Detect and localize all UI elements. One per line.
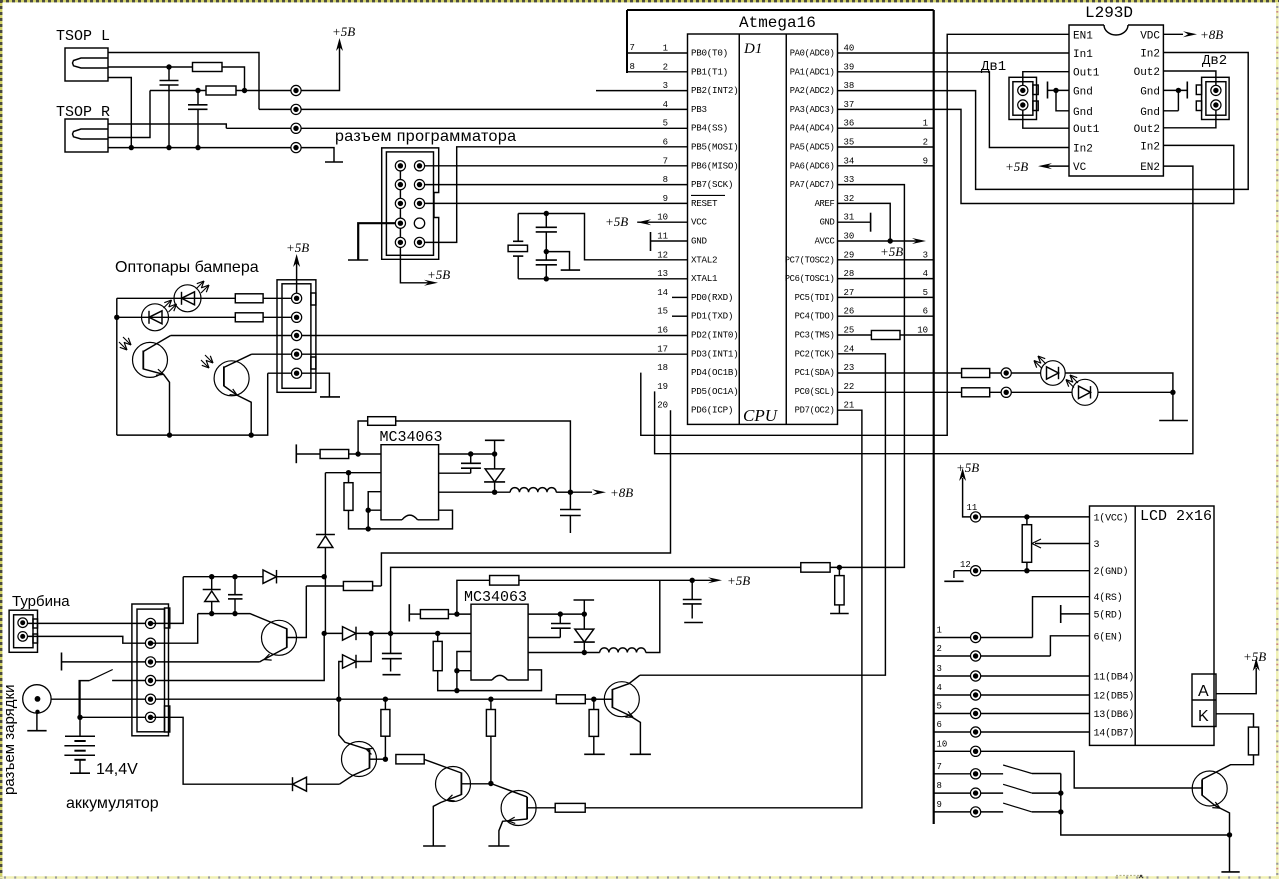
wire battery rail <box>51 698 612 700</box>
capacitor C_xtal1 <box>545 214 547 252</box>
resistor R_ab <box>396 755 424 764</box>
wire pad2 to row613 <box>151 614 198 644</box>
LED VD_opt2 <box>142 304 169 331</box>
resistor R_t1 vertical <box>348 473 350 483</box>
inductor L1 <box>510 488 556 493</box>
wire INT1 row <box>252 353 688 355</box>
capacitor C_t2 <box>559 614 561 637</box>
svg-text:A: A <box>1198 683 1209 700</box>
diode VD_mc2 <box>583 614 585 629</box>
svg-text:PD2(INT0): PD2(INT0) <box>691 330 738 341</box>
junction dots MC34063-2 right <box>558 611 563 616</box>
Atmega16 outer frame <box>627 9 934 11</box>
svg-text:28: 28 <box>844 269 855 279</box>
svg-text:GND: GND <box>691 236 708 247</box>
svg-text:+5В: +5В <box>332 24 355 39</box>
svg-text:4(RS): 4(RS) <box>1094 592 1123 604</box>
turbine tabs <box>33 619 38 628</box>
turbine pad1 <box>18 618 28 628</box>
resistor R_b5v base <box>556 695 585 704</box>
svg-text:+5В: +5В <box>880 244 903 259</box>
svg-text:5: 5 <box>923 288 928 298</box>
wire feedback riser <box>358 421 368 454</box>
wire row6 DB7 <box>934 731 1090 733</box>
svg-text:7: 7 <box>937 762 942 772</box>
junction dots MC34063-1 right <box>468 451 473 456</box>
wire Out1 to motor1 pin1 <box>1023 72 1069 86</box>
svg-text:PA2(ADC2): PA2(ADC2) <box>790 86 835 96</box>
button SB1 arm <box>1003 765 1032 774</box>
wire TSOP R Vcc lead <box>108 91 150 138</box>
pad net6 <box>291 104 301 114</box>
button SB2 arm <box>1003 784 1032 793</box>
opto pad 4 <box>292 349 302 359</box>
svg-text:5: 5 <box>937 702 942 712</box>
MCU pin3 stub <box>596 90 688 92</box>
ground (R3) <box>584 753 605 755</box>
VT_d emitter <box>433 795 461 846</box>
MCU pin14 stub <box>672 296 688 298</box>
pad 12 <box>971 566 981 576</box>
MC34063-1 notch <box>402 515 418 520</box>
wire PC0 to LED2 <box>838 391 962 393</box>
svg-text:PA0(ADC0): PA0(ADC0) <box>790 49 835 59</box>
svg-text:Оптопары бампера: Оптопары бампера <box>115 259 259 276</box>
IR receiver TSOP R body <box>65 119 108 152</box>
wire AVCC +5V <box>838 240 919 242</box>
pad row 5 <box>971 708 981 718</box>
main connector pad 2 <box>145 638 155 648</box>
svg-text:4: 4 <box>663 100 668 110</box>
wire PD7 to motor-driver transistor route <box>585 410 862 808</box>
diode VD_turb <box>293 777 307 791</box>
wire diode to zener node <box>277 576 325 578</box>
wire to pad2 <box>263 316 297 318</box>
pad row 7 <box>971 769 981 779</box>
wire row2 <box>934 655 1051 657</box>
L293D notch <box>1104 25 1128 35</box>
svg-text:MC34063: MC34063 <box>464 589 527 606</box>
svg-text:27: 27 <box>844 288 855 298</box>
junction dots buttons <box>1058 790 1063 795</box>
svg-text:9: 9 <box>663 194 668 204</box>
wire dot to VT_e collector <box>491 784 527 797</box>
svg-text:PB2(INT2): PB2(INT2) <box>691 85 738 96</box>
wire input lead <box>296 453 320 455</box>
wire TSOP L Vcc lead <box>108 66 193 68</box>
resistor R_div1 on sense route <box>801 563 830 573</box>
LED VD_opt1 <box>174 285 201 312</box>
svg-text:14(DB7): 14(DB7) <box>1094 728 1135 740</box>
svg-text:PB3: PB3 <box>691 104 707 115</box>
T terminal MC34063-1 <box>485 439 505 441</box>
svg-text:3: 3 <box>923 250 928 260</box>
pad row 8 <box>971 788 981 798</box>
main connector pad 1 <box>145 618 155 628</box>
svg-text:40: 40 <box>844 44 855 54</box>
svg-text:+8В: +8В <box>1200 27 1223 42</box>
wire pad6 to diode row <box>151 717 293 784</box>
LCD box <box>1090 506 1215 745</box>
MCU right pin stub row 37 <box>838 108 934 110</box>
VT_a collector to diode <box>339 768 369 784</box>
pad row 10 <box>971 746 981 756</box>
junction dots MC34063-2 left <box>454 611 459 616</box>
svg-text:PC1(SDA): PC1(SDA) <box>795 368 835 378</box>
svg-text:+5В: +5В <box>286 240 309 255</box>
svg-text:7: 7 <box>630 43 635 53</box>
wire led2 to ground <box>1098 391 1173 393</box>
ground (sense divider) <box>830 613 849 615</box>
IC MC34063 second body <box>471 604 528 680</box>
TSOP L lens <box>73 58 109 68</box>
svg-text:6: 6 <box>937 720 942 730</box>
svg-text:MC34063: MC34063 <box>380 429 443 446</box>
capacitor C_chg <box>234 577 236 614</box>
ground (TSOP row) <box>296 148 334 162</box>
wire row8 <box>934 792 1003 794</box>
HL1 light arrows <box>1034 356 1046 369</box>
svg-text:5: 5 <box>663 119 668 129</box>
VT_5v collector <box>612 675 640 689</box>
svg-text:24: 24 <box>844 344 855 354</box>
svg-text:Out1: Out1 <box>1073 68 1100 80</box>
svg-text:21: 21 <box>844 401 855 411</box>
programmer GND wire (thick) <box>358 223 400 260</box>
junction dots potentiometer <box>1024 514 1029 519</box>
wire row3 <box>62 661 151 663</box>
wire crystal bottom to node <box>518 256 546 279</box>
svg-text:CPU: CPU <box>743 406 779 425</box>
svg-text:2: 2 <box>937 644 942 654</box>
page border top <box>0 0 1279 2</box>
wire PA3 to L293D In2 lower right <box>934 109 1234 203</box>
terminal bar net row3 <box>61 653 63 671</box>
svg-text:16: 16 <box>657 326 668 336</box>
MCU right pin stub row 40 <box>838 52 934 54</box>
potentiometer R_pot <box>1026 517 1028 525</box>
svg-text:PC5(TDI): PC5(TDI) <box>795 293 835 303</box>
motor connector Dv2 body <box>1202 77 1230 119</box>
resistor R_led1 <box>962 369 990 378</box>
resistor R3 divider <box>593 699 595 709</box>
junction dots battery rail <box>336 697 341 702</box>
resistor R_e base <box>555 803 585 812</box>
wire net row 128 to MCU PB4 <box>226 127 687 129</box>
svg-text:Дв1: Дв1 <box>981 59 1006 75</box>
wire MOSI to MCU pin6 <box>420 147 688 243</box>
svg-text:VC: VC <box>1073 162 1087 174</box>
wire INT0 row <box>171 335 688 337</box>
svg-text:PD1(TXD): PD1(TXD) <box>691 311 733 322</box>
ground (VT_e) <box>488 845 509 847</box>
VT_opt2 emitter <box>224 386 251 435</box>
VT_opt2 light arrows <box>201 355 213 368</box>
MCU pin2 stub net8 <box>627 71 688 73</box>
capacitor C_tsopL <box>168 67 170 148</box>
svg-text:PC0(SCL): PC0(SCL) <box>795 387 835 397</box>
programmer connector outer body <box>382 148 439 259</box>
pot wiper arrow <box>1035 543 1090 545</box>
svg-text:EN2: EN2 <box>1140 162 1160 174</box>
MCU right pin stub row 26 <box>838 315 934 317</box>
svg-text:разъем зарядки: разъем зарядки <box>1 685 18 795</box>
wire net row 109 to MCU PB3 <box>259 108 688 110</box>
wire output row 2 <box>528 652 600 654</box>
svg-text:15: 15 <box>657 307 668 317</box>
svg-text:Out1: Out1 <box>1073 124 1100 136</box>
svg-text:PD6(ICP): PD6(ICP) <box>691 405 733 416</box>
svg-text:25: 25 <box>844 326 855 336</box>
LCD backlight A-K box <box>1192 674 1216 727</box>
wire AREF to AVCC <box>838 203 891 241</box>
capacitor C_tsopR <box>197 91 199 148</box>
wire K to resistor <box>1216 714 1254 727</box>
svg-text:Gnd: Gnd <box>1140 86 1160 98</box>
transistor VT_a pnp <box>342 742 377 777</box>
svg-text:9: 9 <box>937 800 942 810</box>
ground (VT_5v) <box>630 753 651 755</box>
svg-text:18: 18 <box>657 363 668 373</box>
wire pad12 gnd row <box>954 570 1090 572</box>
resistor R_bl <box>1248 727 1258 755</box>
svg-text:аккумулятор: аккумулятор <box>66 795 159 812</box>
wire feedback to output <box>396 421 571 492</box>
Dv2 pad2 <box>1211 100 1221 110</box>
wire LED common vertical <box>116 298 118 435</box>
wire bottom wrap <box>367 510 452 529</box>
opto pad 3 <box>292 330 302 340</box>
wire PD6 to battery switch base <box>381 410 670 586</box>
wire charge row 576 <box>183 576 263 578</box>
svg-text:30: 30 <box>844 232 855 242</box>
VT_e base lead <box>527 807 555 809</box>
junction dot sense divider <box>837 565 842 570</box>
svg-text:+5В: +5В <box>1005 159 1028 174</box>
svg-text:7: 7 <box>663 156 668 166</box>
wire to pad1 <box>263 297 297 299</box>
svg-text:3: 3 <box>663 81 668 91</box>
transistor VT_e <box>501 791 536 826</box>
svg-text:PC7(TOSC2): PC7(TOSC2) <box>785 255 835 265</box>
svg-text:PC6(TOSC1): PC6(TOSC1) <box>785 274 835 284</box>
wire to pad led2 <box>990 391 1072 393</box>
VT_a emitter to rail <box>339 699 370 750</box>
IC L293D body <box>1069 25 1163 176</box>
resistor R_tsopL <box>193 63 223 72</box>
pad row 1 <box>971 632 981 642</box>
resistor R_in1 <box>320 450 349 459</box>
ground (programmer) <box>348 259 368 261</box>
svg-text:20: 20 <box>657 401 668 411</box>
wire TSOP ground row <box>108 147 296 149</box>
ground (VT_bl) <box>1221 871 1239 873</box>
terminal bar MC34063-1 input <box>295 444 297 463</box>
svg-text:38: 38 <box>844 81 855 91</box>
svg-text:31: 31 <box>844 213 855 223</box>
wire wrap pin4 left <box>368 510 381 529</box>
TSOP R lens <box>73 129 109 139</box>
LED HL1 <box>1041 361 1066 386</box>
IC MC34063 first body <box>381 445 439 520</box>
programmer pad R2 <box>414 180 424 190</box>
svg-text:22: 22 <box>844 382 855 392</box>
VT_5v emitter <box>612 707 640 754</box>
svg-text:9: 9 <box>923 156 928 166</box>
phototransistor VT_opt2 <box>214 361 249 396</box>
programmer pad R3 <box>414 198 424 208</box>
wire TSOP R out to net (PB4 row) <box>108 124 226 128</box>
svg-text:разъем программатора: разъем программатора <box>335 128 516 145</box>
svg-text:17: 17 <box>657 344 668 354</box>
pad led1 <box>1001 368 1011 378</box>
wire to pad led1 <box>990 372 1041 374</box>
VT_e emitter <box>499 819 527 846</box>
wire PA1 to L293D In2 <box>934 72 1069 148</box>
svg-text:VDC: VDC <box>1140 30 1160 42</box>
wire resistor to collector <box>1202 755 1253 780</box>
svg-text:+5В: +5В <box>956 460 979 475</box>
svg-text:PA1(ADC1): PA1(ADC1) <box>790 67 835 77</box>
opto pad 1 <box>292 293 302 303</box>
terminal bar MC34063-2 input <box>408 604 410 621</box>
svg-text:K: K <box>1198 708 1209 725</box>
svg-text:GND: GND <box>820 218 835 228</box>
resistor R_pd6 <box>343 582 372 591</box>
power switch SA1 <box>79 681 89 718</box>
opto pad 5 <box>292 368 302 378</box>
transistor VT_bat <box>262 620 297 655</box>
HL2 light arrows <box>1066 375 1078 388</box>
wire input row2 <box>325 472 381 474</box>
capacitor C_t1 <box>470 454 472 473</box>
svg-text:6: 6 <box>663 138 668 148</box>
pad row 4 <box>971 690 981 700</box>
phototransistor VT_opt1 <box>133 342 168 377</box>
svg-text:2: 2 <box>923 138 928 148</box>
junction dots crystal nodes <box>544 211 549 216</box>
junction dots input row MC2 <box>369 631 374 636</box>
wire wrap pin3 left <box>368 492 381 511</box>
wire base resistor row <box>306 585 343 587</box>
svg-text:PA7(ADC7): PA7(ADC7) <box>790 180 835 190</box>
charging jack <box>23 685 51 713</box>
capacitor C_out2 <box>691 580 693 618</box>
svg-text:In1: In1 <box>1073 49 1093 61</box>
resistor R_opt2 <box>235 313 263 322</box>
svg-text:3: 3 <box>937 664 942 674</box>
VT_d base lead <box>461 783 489 785</box>
wire pad1 to charge row <box>151 577 184 624</box>
svg-text:12(DB5): 12(DB5) <box>1094 691 1135 703</box>
wire feedback riser 2 <box>457 580 490 614</box>
svg-text:PC4(TDO): PC4(TDO) <box>795 312 835 322</box>
RESET overline <box>691 194 725 196</box>
svg-text:PD5(OC1A): PD5(OC1A) <box>691 386 738 397</box>
svg-text:1: 1 <box>663 44 668 54</box>
ground plate Dv1 <box>1047 82 1049 99</box>
main connector pad 4 <box>145 675 155 685</box>
wire row5 DB6 <box>934 713 1090 715</box>
resistor R_div2 to ground <box>838 567 840 575</box>
programmer pad L2 <box>395 180 405 190</box>
wire row 633 diode D3 <box>322 631 327 636</box>
main connector pad 5 <box>145 694 155 704</box>
main connector pad 3 <box>145 657 155 667</box>
zener VD_z1 chain <box>324 473 326 535</box>
wire emitter rail <box>117 373 268 435</box>
pad net8 <box>291 143 301 153</box>
svg-text:36: 36 <box>844 119 855 129</box>
opto pad 2 <box>292 312 302 322</box>
ground (LCD pad12) <box>953 571 955 578</box>
svg-text:2(GND): 2(GND) <box>1094 566 1129 578</box>
svg-text:10: 10 <box>917 326 928 336</box>
wire XTAL1 route <box>546 278 687 280</box>
svg-text:23: 23 <box>844 363 855 373</box>
MCU pin10 VCC +5V arrow <box>637 221 687 223</box>
page border left <box>0 0 2 879</box>
wire PA0 to L293D In1 <box>934 52 1069 54</box>
wire inductor to +8V node <box>556 491 570 493</box>
wire PA7 battery sense route <box>391 185 905 634</box>
MCU pin1 stub net7 <box>627 52 688 54</box>
IR receiver TSOP L body <box>65 48 108 81</box>
svg-text:PD3(INT1): PD3(INT1) <box>691 348 738 359</box>
svg-text:PB7(SCK): PB7(SCK) <box>691 179 733 190</box>
resistor R1 divider <box>384 699 386 709</box>
capacitor C_xtal2 <box>545 252 547 279</box>
pad row 6 <box>971 727 981 737</box>
VT_bat emitter <box>260 647 287 662</box>
VT_opt1 collector <box>143 336 170 352</box>
junction dots MC34063-1 left <box>366 508 371 513</box>
page border right <box>1276 2 1279 879</box>
svg-text:PA3(ADC3): PA3(ADC3) <box>790 105 835 115</box>
VT_opt2 collector <box>224 354 252 367</box>
main connector tabs <box>165 608 170 628</box>
svg-text:Gnd: Gnd <box>1073 107 1093 119</box>
wire buttons common <box>1032 774 1061 812</box>
wire VC +5V <box>1044 165 1069 167</box>
MCU pin15 stub <box>672 315 688 317</box>
svg-text:4: 4 <box>937 683 942 693</box>
svg-text:6: 6 <box>923 307 928 317</box>
MCU pin11 GND tick <box>651 240 688 242</box>
wire +5V to opto pad1 <box>296 262 298 298</box>
turbine connector body <box>9 610 37 652</box>
pad row 9 <box>971 807 981 817</box>
svg-text:6(EN): 6(EN) <box>1094 631 1123 643</box>
optocoupler connector body <box>277 280 316 393</box>
MCU right pin stub row 38 <box>838 90 934 92</box>
wire led1 to gnd riser <box>1065 373 1173 392</box>
resistor R_opt1 <box>235 294 263 303</box>
MC34063-2 notch <box>492 675 508 680</box>
MCU right pin stub row 25 <box>838 334 934 336</box>
programmer connector inner body <box>386 152 433 255</box>
resistor R_fb1 <box>368 417 396 426</box>
wire +5V to pad11 <box>963 478 976 517</box>
wire +5V filter row <box>150 90 206 92</box>
svg-text:Турбина: Турбина <box>12 593 70 610</box>
svg-text:Дв2: Дв2 <box>1202 53 1227 69</box>
wire to IC <box>349 453 381 455</box>
svg-text:8: 8 <box>937 781 942 791</box>
svg-text:11(DB4): 11(DB4) <box>1094 672 1135 684</box>
motor connector Dv1 body <box>1009 77 1037 119</box>
wire bottom wrap 2 <box>457 670 542 691</box>
